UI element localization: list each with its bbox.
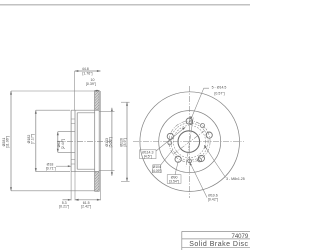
stud hole bottom-left	[175, 156, 181, 162]
extension line OD bottom	[11, 190, 95, 192]
svg-text:[3.54"]: [3.54"]	[169, 179, 179, 183]
svg-text:[1.76"]: [1.76"]	[82, 72, 92, 76]
alignment hole Ø10.6 bottom	[188, 159, 192, 163]
label box Ø90	[167, 175, 181, 184]
svg-text:[0.42"]: [0.42"]	[208, 198, 218, 202]
arrows Ø182	[35, 110, 37, 114]
stud hole right	[206, 132, 212, 138]
stud hole top	[186, 118, 192, 124]
mounting plate mid face	[74, 110, 76, 172]
svg-text:[7.17"]: [7.17"]	[31, 134, 35, 144]
svg-text:[8.9"]: [8.9"]	[123, 138, 127, 146]
svg-text:[5.63"]: [5.63"]	[108, 137, 112, 147]
M8 hole 1	[201, 124, 205, 128]
arrows Ø143	[111, 108, 113, 112]
hat wall top outer	[71, 109, 99, 111]
vertical centerline front view	[189, 86, 191, 198]
hat wall top inner	[77, 112, 95, 114]
M8 hole 3	[198, 158, 202, 162]
svg-text:5 - Ø14.5: 5 - Ø14.5	[212, 85, 227, 89]
friction ring hatched segment top	[95, 91, 100, 111]
top dimension 44.8 line	[75, 70, 101, 72]
dashed circle Ø104	[171, 123, 208, 160]
arrows bottom 61.5	[75, 199, 79, 201]
dashed circle Ø90	[173, 126, 205, 158]
svg-text:Solid Brake Disc: Solid Brake Disc	[189, 241, 248, 248]
hat wall bottom outer	[71, 171, 99, 173]
stud hole left	[167, 133, 173, 139]
leader Ø104 label	[161, 150, 173, 165]
friction ring face lines middle	[94, 110, 96, 172]
arrow leader M8	[204, 145, 206, 148]
hat wall bottom inner	[77, 168, 95, 170]
arrows 10 at ring top	[95, 90, 98, 92]
title block	[182, 230, 250, 232]
bottom dimension 5.3 line	[63, 199, 72, 201]
leader Ø10.6	[190, 163, 207, 198]
svg-text:44.8: 44.8	[82, 67, 89, 71]
stud hole section top	[71, 118, 75, 120]
label box Ø104	[153, 165, 161, 173]
axis centerline left view	[57, 141, 111, 143]
arrow leader Ø10.6	[190, 163, 192, 166]
stud hole section bottom	[71, 159, 75, 161]
bolt circle Ø114.3 dash-dot	[169, 121, 210, 162]
mounting plate outer face	[70, 110, 72, 172]
extension lines Ø182	[36, 109, 70, 111]
arrowheads	[10, 70, 207, 201]
svg-text:[0.71"]: [0.71"]	[46, 167, 56, 171]
inner circle braking band	[159, 111, 221, 173]
alignment hole Ø10.6 top	[189, 121, 193, 125]
leader Ø114.3 label	[156, 127, 185, 151]
center hole Ø62	[178, 131, 200, 153]
svg-text:[0.57"]: [0.57"]	[214, 92, 224, 96]
extension line OD top	[11, 90, 95, 92]
svg-text:[11.06"]: [11.06"]	[6, 136, 10, 148]
arrow Ø18 leader	[68, 165, 72, 167]
arrows Ø226	[126, 102, 128, 106]
arrows bottom 5.3 outside	[68, 199, 71, 201]
leader 5-Ø14.5	[191, 88, 209, 119]
diagonal centerline 2	[174, 128, 209, 154]
friction ring hatched segment bottom	[95, 172, 100, 192]
leader Ø18	[56, 165, 71, 167]
horizontal centerline front view	[133, 141, 244, 143]
dimension Ø182 line	[35, 110, 37, 172]
svg-text:[2.42"]: [2.42"]	[81, 205, 91, 209]
svg-text:[0.21"]: [0.21"]	[59, 205, 69, 209]
arrow leader 5-Ø14.5	[190, 116, 192, 119]
outer circle Ø281	[140, 92, 240, 192]
bottom dimension 61.5 line	[75, 199, 101, 201]
svg-text:3 - M8x1.25: 3 - M8x1.25	[226, 177, 245, 181]
leader Ø90 label	[175, 161, 178, 175]
dimension Ø226 line	[126, 102, 128, 181]
mounting plate inner face	[76, 113, 78, 169]
svg-text:[2.44"]: [2.44"]	[61, 139, 65, 149]
svg-text:[0.39"]: [0.39"]	[86, 82, 96, 86]
arrow leader Ø114.3	[182, 127, 185, 130]
dimension Ø143 line	[111, 108, 113, 176]
diagonal centerline 1	[186, 118, 193, 167]
svg-text:74079: 74079	[232, 234, 249, 240]
title block text	[189, 234, 249, 248]
label box Ø114.3	[140, 150, 156, 159]
top extension left	[74, 71, 76, 110]
dimension Ø62 line	[57, 132, 59, 153]
leader M8	[204, 145, 225, 177]
dimension Ø281 line	[10, 91, 12, 191]
extension lines Ø62 center hole	[58, 131, 75, 133]
bottom extension lines	[70, 172, 72, 201]
arrows Ø281	[10, 91, 12, 95]
svg-text:[4.09"]: [4.09"]	[152, 169, 162, 173]
svg-text:[4.5"]: [4.5"]	[144, 155, 152, 159]
M8 hole 2	[168, 141, 172, 145]
page top border	[0, 4, 250, 6]
stud hole bottom-right	[198, 155, 204, 161]
arrows Ø62	[57, 132, 59, 136]
arrows top dim 44.8	[75, 70, 79, 72]
